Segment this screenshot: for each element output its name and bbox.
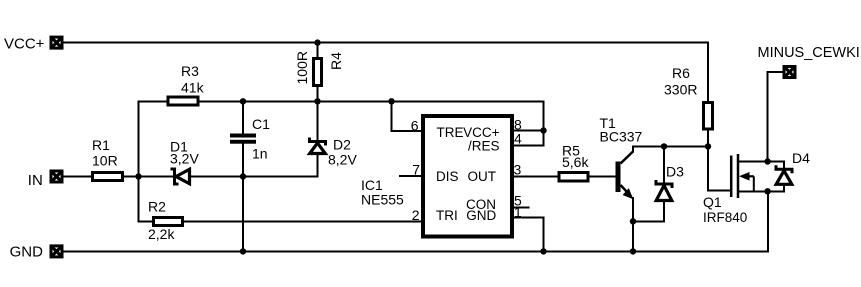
- node R1/R3/R2: [135, 173, 141, 179]
- svg-text:4: 4: [514, 131, 522, 147]
- wire pin3 to R5: [512, 176, 559, 178]
- resistor R3: [168, 63, 205, 105]
- wire drain to D4: [768, 162, 784, 169]
- svg-text:D2: D2: [333, 137, 351, 153]
- node C1 top: [240, 98, 246, 104]
- wire emitter to D3: [633, 220, 664, 222]
- svg-text:1n: 1n: [252, 146, 268, 162]
- wire D3 bottom: [663, 201, 665, 221]
- wire C1 top: [242, 101, 244, 134]
- wire C1 bottom to GND rail: [242, 143, 244, 251]
- wire D2 top: [317, 101, 319, 140]
- svg-text:GND: GND: [10, 244, 44, 261]
- svg-text:DIS: DIS: [436, 169, 459, 184]
- svg-text:2,2k: 2,2k: [148, 226, 175, 242]
- wire drain to MINUS_CEWKI terminal: [768, 72, 783, 162]
- diode D2 (zener, cathode top): [310, 137, 358, 168]
- diode D1 (zener, cathode left): [170, 139, 199, 185]
- svg-text:R2: R2: [148, 199, 166, 215]
- node collector/D3: [661, 143, 667, 149]
- wire R2 to pin2: [184, 221, 424, 223]
- svg-text:5,6k: 5,6k: [562, 154, 589, 170]
- node drain: [764, 158, 770, 164]
- wire R6 bottom: [707, 129, 709, 146]
- svg-text:8,2V: 8,2V: [328, 152, 357, 168]
- wire IN terminal to R1: [63, 176, 93, 178]
- node R4 top on VCC rail: [314, 39, 320, 45]
- svg-text:GND: GND: [466, 208, 496, 223]
- wire D4 bottom to source: [768, 184, 784, 191]
- svg-text:10R: 10R: [92, 153, 118, 169]
- terminal VCC+: [4, 36, 63, 53]
- svg-text:TRE: TRE: [437, 125, 464, 140]
- capacitor C1: [230, 116, 270, 162]
- diode D4 (zener, cathode top): [776, 150, 810, 184]
- wire mid rail (R3 / pin8 net): [139, 100, 544, 102]
- svg-text:330R: 330R: [664, 82, 697, 98]
- resistor R6: [664, 65, 713, 129]
- wire GND rail up to source: [767, 191, 769, 251]
- svg-text:VCC+: VCC+: [4, 36, 45, 53]
- svg-text:6: 6: [411, 117, 419, 133]
- svg-text:TRI: TRI: [436, 208, 458, 223]
- wire R1 to D1: [122, 176, 174, 178]
- resistor R5: [559, 143, 589, 182]
- svg-text:3: 3: [514, 162, 522, 178]
- node R4/D2: [314, 98, 320, 104]
- transistor Q1 IRF840 (N-MOSFET): [703, 154, 754, 225]
- wire pin6 drop: [392, 101, 424, 131]
- wire Q1 drain: [738, 161, 768, 163]
- node emitter/D3: [630, 218, 636, 224]
- wire gate: [708, 146, 731, 190]
- svg-text:41k: 41k: [181, 80, 205, 96]
- terminal MINUS_CEWKI: [758, 45, 860, 78]
- diode D3 (zener, cathode top): [656, 164, 684, 201]
- svg-text:NE555: NE555: [361, 192, 404, 208]
- resistor R2: [148, 199, 183, 242]
- wire collector rail: [633, 145, 708, 147]
- wire T1 emitter vertical: [632, 198, 634, 221]
- wire pin7 stub: [400, 175, 423, 177]
- svg-text:R3: R3: [181, 63, 199, 79]
- terminal GND: [10, 244, 63, 261]
- wire D1 to D2 corner: [190, 153, 318, 177]
- svg-text:OUT: OUT: [468, 169, 497, 184]
- wire Q1 source: [738, 190, 768, 192]
- svg-text:MINUS_CEWKI: MINUS_CEWKI: [758, 45, 860, 61]
- svg-text:C1: C1: [252, 116, 270, 132]
- svg-text:BC337: BC337: [600, 129, 643, 145]
- node pin8: [540, 127, 546, 133]
- svg-text:R4: R4: [328, 52, 344, 70]
- transistor T1 BC337 (NPN): [600, 115, 643, 199]
- node source: [764, 188, 770, 194]
- svg-text:3,2V: 3,2V: [170, 151, 199, 167]
- wire pin5 stub: [512, 206, 529, 208]
- node D1/C1/D2: [240, 173, 246, 179]
- svg-text:IN: IN: [28, 172, 43, 189]
- wire VCC rail down to R6: [707, 43, 709, 103]
- svg-text:2: 2: [412, 207, 420, 223]
- svg-text:100R: 100R: [294, 51, 310, 84]
- node collector/R6/gate: [705, 143, 711, 149]
- node pin6 drop: [388, 98, 394, 104]
- svg-text:1: 1: [514, 204, 522, 220]
- resistor R4: [294, 51, 344, 85]
- wire R4 top stub: [317, 43, 319, 59]
- svg-text:R1: R1: [92, 137, 110, 153]
- svg-text:7: 7: [412, 161, 420, 177]
- terminal IN: [28, 171, 63, 189]
- svg-text:/RES: /RES: [468, 138, 500, 153]
- svg-text:D4: D4: [792, 150, 810, 166]
- wire left vertical x138: [139, 101, 153, 221]
- wire pin8/pin4 vertical: [512, 101, 544, 145]
- wire pin8 stub: [512, 130, 544, 132]
- wire GND rail: [63, 250, 768, 252]
- wire D3 top: [663, 146, 665, 183]
- wire emitter to GND: [632, 221, 634, 251]
- node emitter GND: [630, 248, 636, 254]
- wire R4 bottom to rail: [317, 86, 319, 101]
- svg-text:D3: D3: [666, 164, 684, 180]
- node C1 GND: [240, 248, 246, 254]
- wire pin1 to GND: [512, 218, 544, 252]
- IC U1 NE555 box: [361, 116, 522, 237]
- svg-text:IRF840: IRF840: [703, 210, 747, 225]
- svg-text:R6: R6: [672, 65, 690, 81]
- resistor R1: [92, 137, 123, 181]
- wire T1 collector vertical: [632, 146, 634, 151]
- wire R5 to T1 base: [588, 176, 616, 178]
- svg-text:Q1: Q1: [703, 194, 722, 210]
- node pin1 GND: [540, 248, 546, 254]
- wire VCC+ rail: [63, 42, 708, 44]
